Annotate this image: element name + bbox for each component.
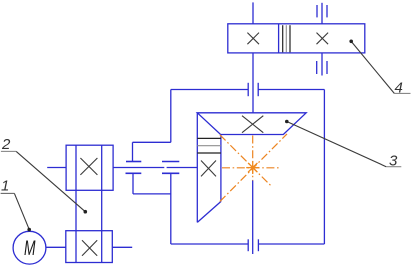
gland strokes at box top shaft pass [248, 83, 258, 96]
input coupling lower bracket [133, 173, 171, 194]
reducer box top edge [171, 89, 325, 91]
label 3 dot [285, 120, 289, 124]
orange vertical centerline [252, 136, 254, 181]
label 4 dot [349, 40, 353, 44]
pinion stripe black 1 [197, 137, 221, 139]
motor shaft to bottom pulley [46, 246, 66, 248]
X in bevel wheel [242, 116, 263, 133]
orange pitch diagonal NE-SW [220, 134, 287, 202]
reducer box bottom edge [171, 243, 325, 245]
reducer box left edge lower part [170, 173, 172, 244]
belt line left [75, 145, 77, 262]
orange pitch diagonal NW-SE [220, 135, 272, 187]
vertical wheel shaft from unit 4 down into box [252, 53, 254, 113]
clutch plate black line 2 [289, 25, 291, 52]
input coupling lower half-bars [126, 172, 180, 174]
label 3 leader [287, 122, 386, 167]
belt line right [101, 145, 103, 262]
label 4 underline [394, 92, 410, 94]
clutch centerline gray [285, 25, 287, 52]
pinion stripe gray centerline [197, 145, 221, 147]
bevel wheel trapezoid [197, 113, 306, 135]
shaft below right bearing of unit 4 [321, 53, 323, 76]
svg-text:1: 1 [1, 178, 9, 195]
X in bevel pinion [201, 161, 216, 177]
svg-text:2: 2 [1, 136, 11, 153]
pinion stripe black 2 [197, 152, 221, 154]
gland strokes at box bottom shaft pass [248, 239, 258, 251]
top pulley [66, 145, 113, 190]
reducer box right edge [323, 90, 325, 245]
bottom pulley [66, 231, 113, 263]
top pulley shaft stub left [47, 167, 66, 169]
label 1 dot [27, 228, 31, 232]
input shaft right segment [167, 167, 198, 169]
label 4 leader [351, 42, 394, 94]
gearbox 4 housing [228, 24, 365, 53]
X in bottom pulley [82, 240, 97, 256]
orange star at axes crossing [246, 161, 259, 174]
input shaft left segment [113, 167, 164, 169]
bearing X right of unit 4 [317, 33, 329, 45]
reducer box left edge upper part [170, 90, 172, 143]
label 2 dot [84, 210, 88, 214]
label 1 leader [14, 193, 29, 229]
clutch plate black line 1 [282, 25, 284, 52]
X in top pulley [80, 158, 97, 175]
coupling strokes below right shaft [317, 61, 327, 74]
output shaft below wheel [252, 181, 254, 255]
label 3 underline [386, 166, 401, 168]
input coupling upper bracket [133, 142, 171, 161]
bevel pinion bottom slant [197, 202, 221, 223]
svg-text:4: 4 [395, 80, 403, 97]
shaft above right bearing of unit 4 [321, 3, 323, 24]
svg-text:M: M [24, 236, 36, 260]
bearing X left of unit 4 [247, 33, 259, 45]
label 2 leader [16, 151, 85, 211]
motor M circle [13, 231, 46, 264]
label 2 underline [1, 150, 16, 152]
bevel pinion left edge [196, 113, 198, 223]
orange horizontal centerline [222, 167, 281, 169]
bottom pulley shaft stub right [112, 246, 132, 248]
coupling strokes above right shaft [317, 5, 327, 17]
input coupling upper half-bars [126, 161, 179, 163]
shaft above left bearing of unit 4 [252, 2, 254, 23]
label 1 underline [1, 192, 15, 194]
bevel pinion right edge [220, 135, 222, 202]
divider wall in unit 4 [278, 24, 280, 53]
